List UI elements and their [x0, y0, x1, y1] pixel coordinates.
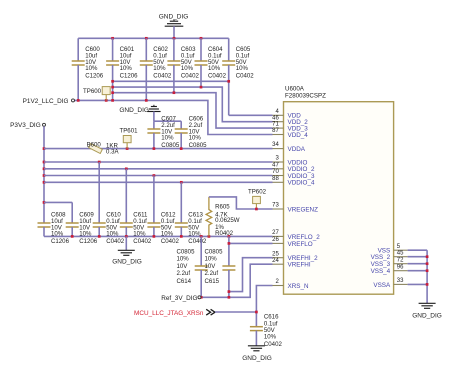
- svg-text:34: 34: [272, 142, 279, 148]
- svg-text:VSS_2: VSS_2: [371, 254, 391, 261]
- svg-text:10V: 10V: [177, 263, 189, 270]
- svg-text:VREFLO_2: VREFLO_2: [288, 234, 321, 241]
- wire Ref_3V line to pin 24 VREFHI: [201, 264, 273, 297]
- pin 5 VSS: [378, 244, 408, 255]
- pin 87 VDD_4: [272, 128, 308, 139]
- ferrite bead B600: [87, 141, 120, 155]
- svg-text:C0402: C0402: [181, 73, 200, 80]
- svg-text:10%: 10%: [208, 65, 221, 72]
- svg-text:71: 71: [272, 122, 279, 128]
- ground GND_DIG (below C616): [242, 346, 272, 362]
- svg-text:C0402: C0402: [208, 73, 227, 80]
- junction dot C603 on line92: [173, 91, 176, 94]
- wire XRS_N vertical to pin 2: [256, 286, 272, 327]
- pin 33 VSSA: [373, 278, 407, 289]
- svg-text:72: 72: [397, 257, 404, 263]
- svg-text:10%: 10%: [205, 256, 218, 263]
- svg-text:45: 45: [397, 250, 404, 256]
- svg-text:Ref_3V_DIG: Ref_3V_DIG: [161, 295, 197, 302]
- junctions on C601 trunk: [111, 80, 114, 94]
- svg-text:87: 87: [272, 128, 279, 134]
- wire VDDIO_3 line to pin 70: [44, 175, 273, 177]
- pin 70 VDDIO_3: [272, 169, 315, 180]
- pin 34 VDDA: [272, 142, 306, 153]
- junction XRSn-C616: [255, 311, 258, 314]
- svg-text:73: 73: [272, 203, 279, 209]
- svg-text:C0805: C0805: [205, 249, 224, 256]
- capacitor C605: [222, 38, 254, 115]
- svg-text:GND_DIG: GND_DIG: [412, 312, 442, 319]
- pin 2 XRS_N: [273, 279, 309, 290]
- ground GND_DIG (below VSSA): [412, 303, 442, 319]
- node P1V2_LLC_DIG: [23, 98, 75, 105]
- svg-text:GND_DIG: GND_DIG: [242, 355, 272, 362]
- svg-text:VREGENZ: VREGENZ: [288, 206, 319, 213]
- pin 73 VREGENZ: [272, 203, 318, 214]
- svg-text:VSS_3: VSS_3: [371, 261, 391, 268]
- svg-text:4: 4: [275, 109, 279, 115]
- pin 27 VREFLO_2: [272, 230, 320, 241]
- wire P1V2 rail to pin 87 VDD_4: [75, 100, 273, 134]
- wire top ground bus: [78, 37, 229, 39]
- svg-text:0.3A: 0.3A: [106, 148, 119, 155]
- wire VDDIO_2 line to pin 47: [44, 168, 273, 170]
- svg-text:TP602: TP602: [248, 188, 267, 195]
- wire XRSn line: [215, 311, 256, 313]
- capacitor C616: [250, 314, 283, 348]
- junctions on VDDA line: [126, 147, 183, 150]
- svg-text:25: 25: [272, 251, 279, 257]
- wire VDDIO line to pin 3: [44, 161, 273, 163]
- svg-text:R0402: R0402: [215, 230, 234, 237]
- svg-text:C1206: C1206: [79, 238, 98, 245]
- pin 47 VDDIO_2: [272, 162, 315, 173]
- svg-text:R605: R605: [215, 203, 230, 210]
- svg-text:VREFHI: VREFHI: [288, 262, 311, 269]
- pin 4 VDD: [273, 109, 302, 120]
- wire C605 bottom to pin 4 VDD: [229, 114, 273, 116]
- power symbol GND_DIG (top): [159, 14, 189, 39]
- junctions on VSS vertical: [426, 255, 429, 285]
- svg-text:VSS_4: VSS_4: [371, 268, 391, 275]
- wire C609 branch: [44, 201, 72, 203]
- junctions on ground rail: [71, 235, 230, 238]
- junction C615 VREFLO: [228, 242, 231, 245]
- junctions on Ref_3V line: [200, 296, 230, 299]
- svg-text:VDDA: VDDA: [288, 146, 306, 153]
- junctions on P1V2 rail: [77, 99, 148, 102]
- capacitor C612: [147, 176, 179, 246]
- capacitor C611: [120, 169, 152, 245]
- junction dots on top bus: [111, 37, 202, 40]
- junctions on P3V3 rail: [43, 147, 46, 204]
- svg-text:B600: B600: [87, 141, 102, 148]
- svg-text:2.2uf: 2.2uf: [177, 270, 191, 277]
- pin 88 VDDIO_4: [272, 176, 315, 187]
- svg-text:10%: 10%: [161, 135, 174, 142]
- resistor R605: [206, 197, 240, 237]
- svg-text:XRS_N: XRS_N: [288, 283, 309, 290]
- wire VREFLO line to pin 26: [229, 242, 273, 244]
- node MCU_LLC_JTAG_XRSn: [134, 310, 204, 317]
- svg-text:GND_DIG: GND_DIG: [119, 107, 149, 114]
- capacitor C608: [38, 212, 70, 246]
- svg-text:5: 5: [397, 244, 401, 250]
- svg-text:88: 88: [272, 176, 279, 182]
- pin 24 VREFHI: [272, 258, 311, 269]
- svg-text:10%: 10%: [181, 65, 194, 72]
- wire to pin 46 VDD_2: [113, 87, 273, 122]
- svg-text:C1206: C1206: [85, 73, 104, 80]
- IC U600A F280039CSPZ: [284, 86, 394, 295]
- svg-text:C615: C615: [205, 278, 220, 285]
- wire ground rail to pin 27 VREFLO_2: [44, 235, 273, 237]
- junctions caps on VDDIO lines: [98, 161, 183, 184]
- svg-text:C1206: C1206: [120, 73, 139, 80]
- svg-text:GND_DIG: GND_DIG: [159, 14, 189, 21]
- svg-text:C1206: C1206: [51, 238, 70, 245]
- svg-text:VDD_4: VDD_4: [288, 132, 309, 139]
- capacitor C607: [147, 116, 179, 150]
- pin 46 VDD_2: [272, 115, 308, 126]
- capacitor C600: [72, 38, 104, 100]
- wire to pin 71 VDD_3: [113, 93, 273, 128]
- junction dot C604 on line87: [200, 86, 203, 89]
- svg-text:C614: C614: [177, 278, 192, 285]
- svg-text:C0402: C0402: [133, 238, 152, 245]
- svg-text:C0402: C0402: [106, 238, 125, 245]
- svg-text:70: 70: [272, 169, 279, 175]
- svg-text:10%: 10%: [236, 65, 249, 72]
- svg-text:C0402: C0402: [264, 341, 283, 348]
- wire VDDA line to pin 34: [44, 148, 273, 150]
- svg-text:C0805: C0805: [177, 249, 196, 256]
- svg-text:10%: 10%: [189, 135, 202, 142]
- svg-text:P1V2_LLC_DIG: P1V2_LLC_DIG: [23, 98, 69, 105]
- svg-text:VSSA: VSSA: [373, 282, 391, 289]
- svg-text:33: 33: [397, 278, 404, 284]
- wire VDDIO_4 line to pin 88: [44, 181, 273, 183]
- junction C615 VREFHI branch: [228, 290, 231, 293]
- pin 96 VSS_4: [371, 264, 408, 275]
- capacitor C601: [106, 38, 138, 100]
- svg-text:10%: 10%: [120, 65, 133, 72]
- svg-text:27: 27: [272, 230, 279, 236]
- svg-text:24: 24: [272, 258, 279, 264]
- capacitor C614: [177, 236, 208, 297]
- svg-text:C0402: C0402: [236, 73, 255, 80]
- svg-text:GND_DIG: GND_DIG: [112, 258, 142, 265]
- node Ref_3V_DIG: [161, 295, 201, 302]
- svg-text:2.2uf: 2.2uf: [205, 270, 219, 277]
- svg-text:C0402: C0402: [161, 238, 180, 245]
- svg-text:46: 46: [272, 115, 279, 121]
- test point TP600: [83, 87, 110, 101]
- capacitor C610: [93, 162, 125, 245]
- svg-text:P3V3_DIG: P3V3_DIG: [10, 122, 41, 129]
- svg-text:47: 47: [272, 162, 279, 168]
- svg-text:TP601: TP601: [120, 127, 139, 134]
- power symbol GND_DIG (middle): [119, 105, 160, 121]
- pin 26 VREFLO: [272, 237, 313, 248]
- svg-text:2: 2: [275, 279, 279, 285]
- test point TP602: [248, 188, 267, 210]
- pin 3 VDDIO: [273, 156, 308, 167]
- capacitor C609: [66, 202, 98, 245]
- capacitor C602: [140, 38, 172, 100]
- capacitor C613: [175, 182, 207, 245]
- svg-text:10%: 10%: [264, 334, 277, 341]
- wire gnd header to C606: [154, 120, 181, 122]
- svg-text:C0402: C0402: [188, 238, 207, 245]
- svg-text:10%: 10%: [153, 65, 166, 72]
- svg-text:10%: 10%: [85, 65, 98, 72]
- svg-text:C0402: C0402: [153, 73, 172, 80]
- svg-text:10%: 10%: [177, 256, 190, 263]
- svg-text:26: 26: [272, 237, 279, 243]
- wire VSS net to ground: [408, 250, 428, 303]
- svg-text:F280039CSPZ: F280039CSPZ: [285, 93, 326, 100]
- pin 72 VSS_3: [371, 257, 408, 268]
- pin 71 VDD_3: [272, 122, 308, 133]
- capacitor C606: [175, 116, 207, 150]
- svg-text:3: 3: [275, 156, 279, 162]
- wire VREFHI_2 branch to pin 25: [229, 258, 273, 292]
- svg-text:TP600: TP600: [83, 88, 102, 95]
- wire VDD_2 distribution line y81: [113, 80, 229, 82]
- capacitor C603: [167, 38, 199, 92]
- wire R605 top to pin 73 VREGENZ: [209, 197, 273, 209]
- ground GND_DIG (below C611): [112, 236, 142, 265]
- svg-text:VREFLO: VREFLO: [288, 241, 313, 248]
- node P3V3_DIG: [10, 122, 45, 129]
- pin 45 VSS_2: [371, 250, 408, 261]
- wire P3V3 vertical rail: [43, 126, 45, 223]
- svg-text:10V: 10V: [205, 263, 217, 270]
- capacitor C615: [205, 236, 236, 297]
- pin 25 VREFHI_2: [272, 251, 318, 262]
- svg-text:96: 96: [397, 264, 404, 270]
- svg-text:VDDIO_4: VDDIO_4: [288, 180, 315, 187]
- svg-text:MCU_LLC_JTAG_XRSn: MCU_LLC_JTAG_XRSn: [134, 310, 204, 317]
- off-page connector chevrons: [206, 309, 215, 315]
- junction dot C605-line81: [227, 80, 230, 83]
- test point TP601: [120, 127, 139, 148]
- capacitor C604: [195, 38, 227, 87]
